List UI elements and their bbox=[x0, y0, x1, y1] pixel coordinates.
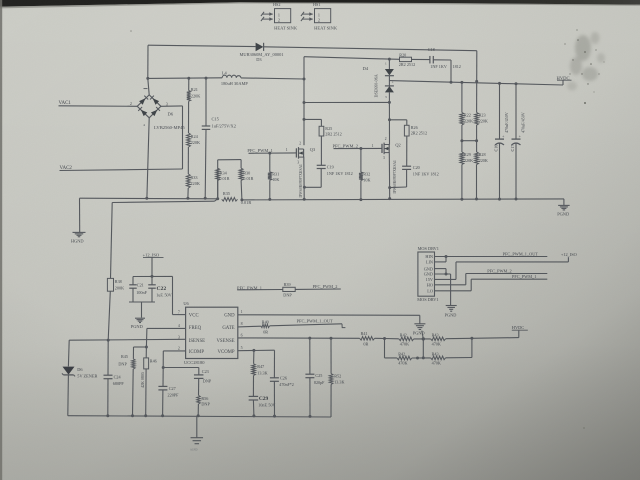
wire R23/R28 string bbox=[476, 81, 478, 199]
wire divider bottom row bbox=[385, 338, 472, 358]
resistor R42 470K (top) bbox=[399, 332, 414, 346]
resistor R28 220K bbox=[475, 152, 488, 165]
capacitor C24 680PF bbox=[104, 340, 125, 416]
node R46 gnd bbox=[144, 414, 147, 417]
node bottom row tie a bbox=[416, 356, 419, 359]
net label PFC_PWM_1_OUT (gate out) bbox=[270, 319, 346, 328]
wire HIN to PFC_PWM_1_OUT bbox=[435, 256, 548, 258]
resistor R38 200K bbox=[107, 278, 124, 340]
capacitor C17 470uF/450V bbox=[510, 84, 525, 199]
ground PGND (U6 / divider) bbox=[413, 324, 426, 336]
inductor L4 180uH 30AMP bbox=[221, 70, 249, 86]
node D3 wire on HVDC rail bbox=[475, 80, 478, 83]
node divider right bbox=[470, 337, 473, 340]
resistor R34 0.01R bbox=[216, 168, 230, 199]
net label PFC_PWM_2 (gate Q2) bbox=[333, 144, 359, 149]
label 42K 0805 vertical bbox=[140, 372, 145, 388]
node C25 tap bbox=[308, 337, 311, 340]
wire ISENSE line bbox=[69, 338, 185, 341]
node R52 tap bbox=[330, 337, 333, 340]
resistor R56 DNP bbox=[197, 378, 211, 415]
net label HVDC (top right) bbox=[557, 75, 572, 85]
net label VAC1 bbox=[59, 101, 72, 106]
wire C21/C22 ground bar bbox=[129, 302, 155, 318]
resistor R43 470K (top) bbox=[431, 332, 446, 346]
capacitor C19 1NF 1KV 1812 bbox=[304, 136, 352, 187]
node VCOMP / R47 bbox=[252, 349, 255, 352]
node R32 bottom bbox=[359, 198, 362, 201]
label D3 bbox=[256, 57, 262, 62]
node C24 gnd bbox=[106, 414, 109, 417]
wire VAC2 to bridge pin 3 bbox=[60, 106, 183, 171]
node C15 bottom bbox=[204, 197, 207, 200]
resistor R26 2R2 2512 bbox=[390, 120, 428, 136]
wire R22/R29 string bbox=[461, 82, 463, 199]
node GND tie bbox=[445, 273, 448, 276]
node L4 / switch vertical bbox=[303, 78, 306, 81]
node gate pulldown R32 bbox=[359, 147, 362, 150]
wire rectified rail to L4 bbox=[148, 77, 222, 80]
diode D3 MUR3060M bbox=[256, 43, 264, 52]
net label PFC_PWM_2 (link right) bbox=[295, 284, 341, 289]
transistor Q3 IPW60R099 bbox=[296, 142, 316, 165]
node divider mid (PGND) bbox=[422, 337, 425, 340]
wire PFC_PWM_1 to Q3 gate bbox=[249, 152, 297, 154]
wire top bypass rail (bridge+ to HVDC) bbox=[148, 45, 477, 81]
node mid tie left bbox=[460, 139, 463, 142]
resistor R23 220K bbox=[475, 113, 488, 126]
connector MOS_DRV1 bbox=[417, 246, 439, 302]
node R31 bottom bbox=[268, 198, 271, 201]
wire LO to PFC_PWM_1 bbox=[435, 279, 548, 291]
bridge label LVB2560-MP45 bbox=[154, 125, 185, 130]
node ICOMP branch bbox=[162, 366, 165, 369]
dark top edge of photo bbox=[0, 0, 640, 7]
wire bridge + output up to D3 branch bbox=[148, 45, 149, 95]
label Q2 part number vertical bbox=[393, 160, 397, 194]
capacitor C21 100nF bbox=[129, 277, 147, 303]
wire divider center tie bbox=[422, 339, 424, 358]
wire VSENSE line bbox=[238, 337, 360, 339]
net label PFC_PWM_1 (gate Q3) bbox=[247, 148, 273, 153]
node C25 gnd bbox=[309, 415, 312, 418]
node switch horizontal left bbox=[303, 101, 306, 104]
node R56 gnd bbox=[197, 414, 200, 417]
wire VCOMP line bbox=[238, 349, 275, 352]
wire switch node vertical (to Q3 drain) bbox=[303, 57, 305, 146]
net label PFC_PWM_1 (link left) bbox=[237, 285, 283, 290]
wire HVDC rail bbox=[389, 81, 563, 85]
wire divider to HVDC label bbox=[472, 331, 519, 339]
node D4 bottom anode / Q2 drain bbox=[388, 101, 391, 104]
node bridge plus / D3 branch bbox=[146, 77, 149, 80]
node FREQ resistors bbox=[145, 346, 148, 349]
ground PGND (driver) bbox=[445, 306, 457, 318]
label Q3 part number vertical bbox=[299, 164, 303, 198]
wire snubber down to HVDC rail bbox=[450, 60, 452, 82]
node Q3 source / snubber bbox=[303, 186, 306, 189]
resistor R52 13.3K bbox=[329, 338, 344, 417]
node C17 bottom bbox=[515, 198, 518, 201]
node C17 top bbox=[515, 82, 518, 85]
node rectified rail / R21 string bbox=[187, 77, 190, 80]
wire GND1 jumper bbox=[435, 269, 447, 274]
wire R21 string bbox=[187, 78, 190, 198]
node Q2 source on rail bbox=[388, 197, 391, 200]
wire LIN jumper bbox=[435, 257, 447, 262]
wire FREQ pin to R45/R46 bbox=[146, 328, 185, 347]
resistor R42 470K (bottom) bbox=[397, 351, 412, 365]
node snubber on HVDC rail bbox=[450, 81, 453, 84]
zener D6 5V bbox=[62, 340, 98, 416]
node R28 bottom bbox=[475, 198, 478, 201]
ground PGND (VCC filter) bbox=[131, 318, 145, 329]
transistor Q2 IPW60R099 bbox=[382, 137, 401, 160]
node VSENSE divider left bbox=[383, 337, 386, 340]
net label PFC_PWM_2 (driver) bbox=[487, 268, 511, 273]
wire GATE with R40 bbox=[238, 325, 261, 328]
label MUR3060M_AY_00001 bbox=[240, 52, 284, 57]
node C29 gnd bbox=[252, 414, 255, 417]
wire rail A (bridge negative) bbox=[80, 197, 218, 200]
wire bridge negative down bbox=[147, 118, 149, 198]
wire top anode rail to D4 bbox=[304, 57, 389, 59]
node rectified rail / C15 bbox=[205, 77, 208, 80]
heat sink HS2 bbox=[261, 2, 298, 30]
capacitor C26 470nF*2 bbox=[270, 350, 294, 416]
resistor R31 10K bbox=[268, 153, 280, 199]
node Q2 snubber tap bbox=[388, 118, 391, 121]
wire Q2 source down bbox=[388, 152, 390, 198]
wire ground stub to divider node bbox=[422, 331, 424, 339]
node shunt right bbox=[240, 198, 243, 201]
capacitor C22 1uF 50V bbox=[148, 276, 171, 302]
node bridge negative on rail bbox=[145, 197, 148, 200]
net label HVDC (divider) bbox=[512, 325, 528, 330]
capacitor C15 1uF/275V/X2 bbox=[202, 78, 236, 198]
resistor R47 13.3K bbox=[252, 350, 268, 396]
node mid tie right bbox=[475, 139, 478, 142]
small speck lower right bbox=[583, 427, 585, 429]
pin 1 label Q2 gate bbox=[372, 144, 374, 148]
net label PFC_PWM_1 (driver) bbox=[512, 274, 536, 279]
resistor R22 220K bbox=[460, 113, 473, 126]
ground HGND bbox=[71, 232, 86, 243]
label DSEK60-06A vertical bbox=[374, 74, 379, 97]
wire control ground rail bbox=[68, 416, 331, 417]
node Q3 snubber tap bbox=[303, 118, 306, 121]
wire GND2 to PGND bbox=[435, 274, 451, 305]
resistor R21 bbox=[187, 87, 201, 101]
wire VCC top rail bbox=[133, 276, 186, 314]
wire PGND rail right end bbox=[563, 199, 565, 205]
photo stain smudge top right bbox=[567, 32, 605, 91]
wire PFC_PWM_2 to Q2 gate bbox=[334, 147, 383, 149]
node C27 gnd bbox=[161, 414, 164, 417]
wire HO to PFC_PWM_2 bbox=[435, 274, 548, 285]
diode D4 DSEK60-06A (dual common cathode) bbox=[385, 59, 394, 102]
node R33 bottom bbox=[186, 197, 189, 200]
net label PFC_PWM_1_OUT (driver) bbox=[503, 251, 539, 256]
node Q3 source on rail bbox=[303, 198, 306, 201]
wire divider top row bbox=[385, 337, 472, 340]
node R22 string top bbox=[460, 81, 463, 84]
dark left edge of photo bbox=[0, 0, 2, 480]
wire ICOMP pin left and down bbox=[163, 351, 185, 368]
node R22 bottom bbox=[460, 198, 463, 201]
node Q2 source / snubber bbox=[388, 186, 391, 189]
resistor R32 10K bbox=[359, 149, 371, 200]
resistor R45 DNP bbox=[118, 347, 146, 416]
resistor R20 2R2 2512 bbox=[389, 52, 429, 67]
node R45 gnd bbox=[131, 414, 134, 417]
wire L4 to switch node bbox=[241, 78, 304, 79]
capacitor C23 DNP bbox=[163, 368, 212, 384]
resistor R39 DNP bbox=[283, 282, 295, 297]
resistor R25 2R2 2512 bbox=[304, 119, 342, 136]
wire Q3 source down bbox=[303, 157, 305, 199]
capacitor C27 220PF bbox=[158, 368, 179, 416]
net label +12_ISO (driver) bbox=[561, 252, 577, 257]
resistor R29 220K bbox=[460, 152, 473, 165]
wire HGND drop bbox=[79, 198, 81, 232]
node HIN/LIN tie bbox=[445, 255, 448, 258]
wire U6 GND to ground bbox=[238, 315, 420, 324]
pin 1 label Q3 gate bbox=[286, 148, 288, 152]
resistor R35 0.01R (shunt) bbox=[222, 191, 252, 205]
wire rail B (ISENSE sense trace) bbox=[112, 199, 218, 203]
capacitor C25 820pF bbox=[305, 338, 325, 416]
capacitor C29 10nF 50V bbox=[249, 396, 276, 416]
bridge label D6 bbox=[168, 112, 174, 117]
wire Q2 drain vertical bbox=[388, 102, 390, 144]
node ISENSE / C24 R38 bbox=[107, 339, 110, 342]
node C26 gnd bbox=[273, 415, 276, 418]
node D4 top anode bbox=[388, 58, 391, 61]
capacitor C18 1NF 1KV 1812 bbox=[428, 47, 461, 69]
resistor R24 bbox=[187, 133, 201, 147]
node C16 top bbox=[498, 82, 501, 85]
wire VAC1 to bridge bbox=[59, 105, 138, 108]
node +12 rail bbox=[151, 275, 154, 278]
bridge rectifier D6 LVB2560-MP45 bbox=[130, 89, 168, 127]
op-amp U6 UCC28180 controller bbox=[178, 301, 243, 365]
node C16 bottom bbox=[498, 198, 501, 201]
resistor R43 470K (bottom) bbox=[431, 351, 446, 365]
resistor R30 0.01R bbox=[239, 168, 253, 181]
net label +12_ISO (VCC) bbox=[143, 252, 164, 276]
net label VAC2 bbox=[60, 166, 73, 171]
wire rail B drop to R38 bbox=[111, 203, 113, 279]
wire PGND rail (sense to output gnd) bbox=[242, 199, 564, 200]
resistor R33 bbox=[186, 174, 200, 188]
node bottom row tie b bbox=[422, 356, 425, 359]
node shunt left bbox=[216, 197, 219, 200]
ground (analog) below rail bbox=[190, 416, 203, 452]
node gate pulldown R31 bbox=[268, 152, 271, 155]
wire divider mid tie bbox=[462, 140, 477, 142]
ground PGND (output) bbox=[557, 205, 569, 216]
capacitor C16 470uF/450V bbox=[494, 83, 509, 199]
resistor R40 0R bbox=[261, 319, 270, 334]
small speck left bbox=[130, 30, 132, 32]
heat sink HS1 bbox=[301, 2, 338, 30]
capacitor C20 1NF 1KV 1812 bbox=[390, 136, 439, 188]
wire R34/R30 bracket bbox=[218, 160, 242, 200]
wire 15V to +12_ISO bbox=[435, 257, 569, 279]
label D4 bbox=[363, 66, 369, 71]
resistor R46 42K 0805 bbox=[144, 347, 157, 416]
wire switch node horizontal to D4 anode bbox=[304, 101, 389, 103]
resistor R41 0R bbox=[360, 331, 385, 346]
